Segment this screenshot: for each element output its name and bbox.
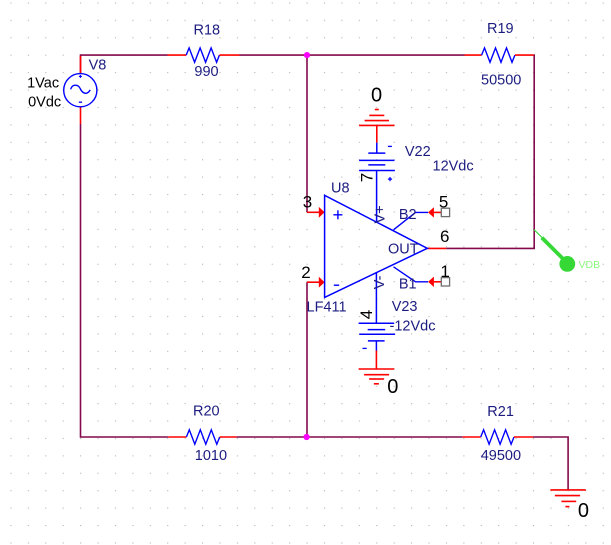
svg-text:VDB: VDB [579,259,601,271]
svg-text:V-: V- [372,275,388,289]
wire V8 bottom stub (red) [80,107,82,125]
svg-text:0: 0 [578,500,589,522]
svg-text:2: 2 [301,263,310,282]
svg-text:R21: R21 [487,404,514,420]
svg-text:OUT: OUT [388,242,419,258]
svg-text:3: 3 [303,193,312,212]
svg-text:49500: 49500 [481,448,521,464]
wire left vertical V8 down to bottom rail [81,124,169,437]
resistor R20 [168,430,236,444]
svg-text:U8: U8 [331,180,350,196]
ground 0 (below V23) [359,351,395,384]
wire R21 right to ground corner [533,437,568,490]
svg-text:990: 990 [194,64,218,80]
resistor R18 [168,48,240,62]
node top junction [304,52,310,58]
svg-text:V+: V+ [372,205,388,223]
svg-text:6: 6 [440,227,449,246]
ground 0 (bottom right) [550,490,585,507]
svg-text:R18: R18 [194,22,221,38]
svg-text:1010: 1010 [195,448,227,464]
battery V22 [359,143,395,182]
svg-text:V22: V22 [405,144,431,160]
svg-text:1: 1 [440,262,449,281]
svg-text:12Vdc: 12Vdc [433,159,474,175]
svg-text:R19: R19 [487,21,514,37]
svg-text:0: 0 [387,376,398,398]
wire B2 branch to pin 5 [394,207,442,230]
svg-text:7: 7 [357,173,376,182]
svg-text:5: 5 [439,193,448,212]
wire R20 to bottom junction to R21 [237,436,463,438]
probe VDB marker [534,230,575,272]
svg-text:0Vdc: 0Vdc [28,95,61,111]
svg-text:R20: R20 [193,403,220,419]
svg-text:B1: B1 [399,277,417,293]
source V8 [64,74,97,107]
pin 5 terminal square [441,208,449,216]
svg-text:0: 0 [371,84,382,106]
svg-text:-12Vdc: -12Vdc [390,318,436,334]
svg-text:V23: V23 [392,299,418,315]
node bottom junction [304,434,310,440]
wire V- branch into op-amp [375,272,377,323]
svg-text:50500: 50500 [481,73,521,89]
wire pin2 stub red with arrow [307,277,325,288]
ground 0 (top, above V22) [359,110,394,143]
svg-text:V8: V8 [89,57,107,73]
wire top net: V8 top to R18 [81,55,168,73]
pin 1 terminal square [441,278,449,286]
resistor R21 [463,430,533,444]
wire bottom junction up to pin2 corner [306,282,308,437]
wire V+ branch into op-amp [376,171,378,222]
svg-text:1Vac: 1Vac [27,76,59,92]
wire R19 right corner down to OUT node [446,55,534,248]
wire pin3 stub red with arrow [307,207,325,218]
wire V8 top pin stub (red) [80,56,82,74]
svg-text:B2: B2 [399,207,417,223]
wire R18 to top junction to R19 [240,54,465,56]
svg-text:LF411: LF411 [307,300,347,316]
resistor R19 [465,48,534,62]
battery V23 [359,323,396,350]
op-amp U8 [325,195,428,297]
wire B1 branch to pin 1 [394,267,442,287]
wire top junction down to pin3 corner [306,55,308,212]
wire OUT red stub from op-amp apex [427,247,446,249]
svg-text:4: 4 [357,310,376,319]
